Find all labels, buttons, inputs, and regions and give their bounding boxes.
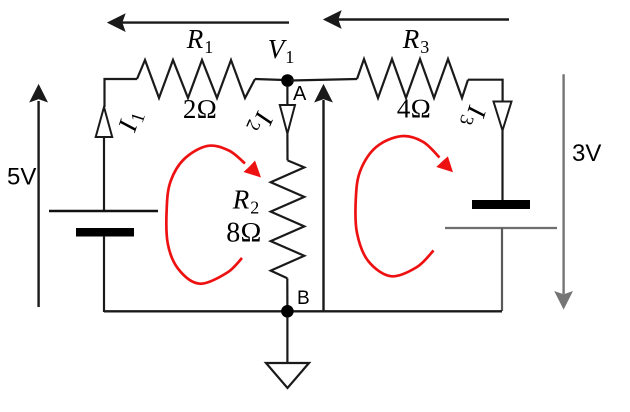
resistor R2 zigzag (vertical) [271, 160, 305, 278]
ground symbol [266, 363, 309, 388]
voltage arrow 3V (gray, pointing down) [555, 74, 572, 308]
wire node V1 down to I2 arrow [286, 86, 288, 105]
node V1 junction dot [281, 74, 294, 87]
bottom rail wire [104, 310, 502, 312]
svg-text:B: B [297, 288, 310, 309]
node B junction dot [281, 305, 294, 318]
svg-text:3V: 3V [572, 140, 601, 167]
current arrow I3 (open, pointing down) [494, 102, 512, 131]
voltage arrow V1 (black, pointing up, node B to A) [315, 85, 332, 311]
wire 5V battery to bottom rail [103, 236, 105, 312]
wire node V1 to R3 [291, 79, 357, 81]
current arrow I1 (open, pointing up) [96, 107, 113, 137]
svg-text:5V: 5V [7, 164, 36, 191]
wire top-left corner (top rail to R1) [105, 79, 138, 107]
battery 3V thin plate (bottom, gray) [445, 227, 557, 229]
svg-text:2Ω: 2Ω [183, 94, 217, 124]
mesh current arrow (left loop, red clockwise) [166, 146, 261, 284]
current arrow I2 (open, pointing down) [280, 105, 295, 134]
resistor R1 zigzag [137, 60, 255, 98]
battery 3V thick plate (top) [472, 200, 530, 209]
wire I2 arrow to R2 [286, 134, 288, 161]
current direction arrow (top right, pointing left) [324, 11, 509, 28]
wire I3 arrow to 3V battery [501, 131, 503, 201]
battery 5V thick plate (bottom) [76, 228, 134, 237]
mesh current arrow (right loop, red clockwise) [355, 136, 453, 276]
resistor R3 zigzag [357, 59, 468, 98]
battery 5V thin plate (top) [49, 210, 158, 212]
wire R1 to node V1 [255, 79, 284, 80]
svg-text:8Ω: 8Ω [226, 218, 262, 249]
voltage arrow 5V (black, pointing up) [30, 85, 47, 307]
wire 3V battery to bottom rail (gray) [501, 228, 503, 311]
svg-text:4Ω: 4Ω [397, 94, 431, 124]
wire node B to ground [286, 317, 288, 363]
wire I1 arrow to 5V battery [103, 137, 105, 211]
current direction arrow (top left, pointing left) [108, 14, 289, 31]
wire R3 to right corner, down to I3 arrow [468, 80, 503, 102]
svg-text:A: A [293, 83, 307, 105]
wire R2 to node B [286, 278, 288, 311]
